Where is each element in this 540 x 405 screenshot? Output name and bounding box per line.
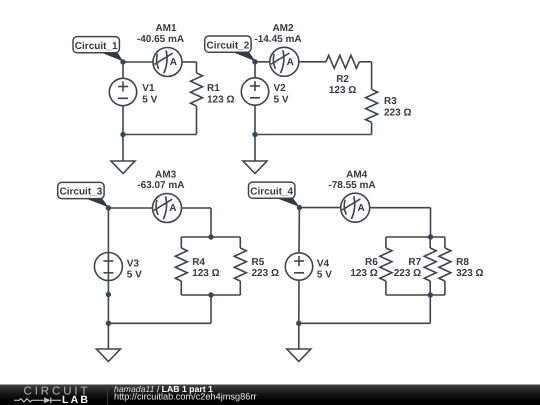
wire rail to R5 [239,237,241,248]
label AM1 value [137,23,184,45]
label V4 5V [317,258,332,280]
voltage source V4 [285,253,312,280]
svg-text:V2: V2 [274,83,287,94]
junction dot bottom circuit 1 [120,132,125,137]
resistor R4 [175,248,187,281]
wire node to V2 [254,62,256,78]
wire AM4 to corner [370,207,431,209]
junction dot bottom circuit 4 [296,321,301,326]
svg-text:5 V: 5 V [317,270,332,281]
label AM3 value [137,170,184,192]
ammeter AM2 [270,47,299,76]
wire corner down to R3 [371,62,373,90]
node label Circuit_4 [249,182,295,198]
node B (junction dot) [252,59,257,64]
svg-text:-63.07 mA: -63.07 mA [137,180,184,191]
flag wedge node 2 [233,52,255,61]
bottom wire circuit 2 [255,134,372,136]
resistor R6 [380,248,392,281]
label R4 123 ohm [192,257,219,279]
flag wedge node 4 [277,198,300,207]
wire R1 to bottom [196,106,198,135]
resistor R2 [326,55,359,68]
svg-text:223 Ω: 223 Ω [384,108,411,119]
bottom wire circuit 1 [123,134,197,136]
wire rail to R8 [444,237,446,248]
resistor R3 [366,89,378,122]
svg-text:R4: R4 [192,257,205,268]
bottom wire circuit 3 [108,322,211,324]
wire to ground 3 [107,323,109,349]
svg-text:R6: R6 [365,257,378,268]
wire R4 to bottom rail [180,281,182,295]
wire to ground 4 [298,323,300,349]
wire V1 to bottom [122,106,124,135]
wire AM3 to corner [182,207,212,209]
wire to ground 2 [254,135,256,162]
svg-text:AM4: AM4 [346,170,368,181]
svg-text:AM2: AM2 [272,23,294,34]
wire R6 to bottom rail [385,281,387,295]
label V2 5V [274,83,289,105]
label AM4 value [328,170,375,192]
svg-text:5 V: 5 V [274,94,289,105]
wire rail to R4 [180,237,182,248]
flag wedge node 3 [86,199,109,208]
footer divider [107,387,109,404]
junction dot bottom circuit 2 [252,132,257,137]
svg-text:R1: R1 [207,83,220,94]
svg-text:R7: R7 [408,257,421,268]
top rail circuit 4 [386,236,445,238]
svg-text:R5: R5 [252,257,265,268]
junction dot bottom rail 4 [428,292,433,297]
junction dot bottom rail 3 [208,292,213,297]
label R7 223 ohm [394,257,422,279]
node label Circuit_1 [73,37,119,53]
svg-text:-40.65 mA: -40.65 mA [137,34,184,45]
label AM2 value [254,23,301,45]
wire rail down 4 [429,295,431,323]
wire R8 to bottom rail [444,281,446,295]
svg-text:Circuit_2: Circuit_2 [207,40,250,51]
label R3 223 ohm [384,96,411,119]
wire AM1 to corner [182,61,197,63]
ground circuit 4 [287,349,311,362]
ammeter AM4 [341,193,370,222]
junction dot top rail 4 [428,234,433,239]
label R6 123 ohm [350,257,378,279]
node label Circuit_3 [58,182,104,198]
svg-text:LAB: LAB [62,394,90,405]
svg-text:R2: R2 [336,74,349,85]
bottom rail circuit 3 [181,294,240,296]
svg-text:AM3: AM3 [155,170,177,181]
node label Circuit_2 [205,36,251,52]
top rail circuit 3 [181,236,240,238]
svg-text:V1: V1 [142,83,155,94]
svg-text:R3: R3 [384,96,397,107]
node A (junction dot) [120,59,125,64]
resistor R5 [234,248,246,281]
voltage source V2 [241,78,268,105]
svg-text:V4: V4 [317,258,330,269]
label V1 5V [142,83,157,105]
wire to ground 1 [122,135,124,162]
svg-text:http://circuitlab.com/c2eh4jms: http://circuitlab.com/c2eh4jmsg86rr [114,392,256,402]
junction dot on V3 branch [106,292,111,297]
voltage source V1 [109,78,136,105]
svg-text:223 Ω: 223 Ω [394,268,421,279]
label R2 123 ohm [329,74,356,96]
wire R3 to bottom [371,122,373,134]
label R5 223 ohm [252,257,279,279]
wire node to AM2 [255,61,270,63]
wire V4 to bottom [298,281,300,324]
wire corner down to rail 4 [430,208,432,237]
wire rail to R6 [385,237,387,248]
flag wedge node 1 [101,53,123,62]
svg-text:-78.55 mA: -78.55 mA [328,180,375,191]
wire corner down to rail [210,208,212,237]
voltage source V3 [94,253,122,281]
wire node through V3 to bottom [107,208,109,323]
wire R5 to bottom rail [239,281,241,295]
CircuitLab logo squiggle (resistor + diode) [14,397,61,403]
ground circuit 2 [243,161,267,174]
svg-text:AM1: AM1 [155,23,177,34]
svg-text:123 Ω: 123 Ω [350,268,377,279]
wire rail to R7 [429,237,431,248]
ground circuit 3 [96,349,120,362]
wire node to V4 [298,208,300,252]
bottom rail circuit 4 [386,294,445,296]
ammeter AM1 [153,48,182,77]
wire node to V1 [122,62,124,78]
ground circuit 1 [111,161,135,174]
wire node to AM3 [108,207,152,209]
bottom wire circuit 4 [299,322,431,324]
svg-text:5 V: 5 V [142,94,157,105]
svg-text:123 Ω: 123 Ω [192,268,219,279]
resistor R8 [439,248,451,281]
wire AM2 to R2 [299,61,326,63]
svg-text:5 V: 5 V [127,270,142,281]
wire node to AM4 [299,207,340,209]
node D (junction dot) [297,205,302,210]
svg-text:R8: R8 [456,257,469,268]
junction dot top rail 3 [208,234,213,239]
svg-text:Circuit_3: Circuit_3 [60,187,103,198]
wire node to AM1 [123,61,153,63]
footer bar [0,385,540,405]
svg-text:Circuit_1: Circuit_1 [75,41,118,52]
label V3 5V [127,258,142,280]
svg-text:-14.45 mA: -14.45 mA [254,34,301,45]
wire R7 to bottom rail [429,281,431,295]
wire corner down to R1 [196,62,198,73]
label R1 123 ohm [207,83,234,105]
svg-text:223 Ω: 223 Ω [252,268,279,279]
junction dot bottom circuit 3 [106,321,111,326]
wire R2 to corner [359,61,371,63]
svg-text:Circuit_4: Circuit_4 [250,186,293,197]
wire rail down [210,295,212,323]
label R8 323 ohm [456,257,483,279]
svg-text:V3: V3 [127,258,140,269]
wire V2 to bottom [254,106,256,135]
svg-text:123 Ω: 123 Ω [207,94,234,105]
svg-text:123 Ω: 123 Ω [329,85,356,96]
ammeter AM3 [153,194,182,223]
resistor R1 [191,73,203,106]
svg-text:323 Ω: 323 Ω [456,268,483,279]
node C (junction dot) [106,205,111,210]
resistor R7 [424,248,436,281]
